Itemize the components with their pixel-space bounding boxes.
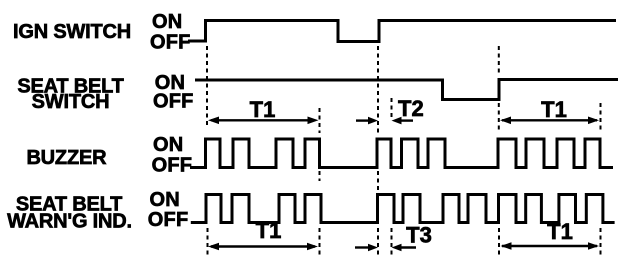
waveform IGN SWITCH bbox=[188, 21, 616, 42]
svg-text:ON: ON bbox=[153, 134, 183, 156]
label BUZZER bbox=[26, 147, 107, 169]
arrow T2 left part bbox=[356, 117, 378, 125]
waveform SEAT BELT WARN'G IND. bbox=[191, 195, 615, 223]
svg-text:ON: ON bbox=[152, 11, 182, 33]
label T1 mid-left bbox=[250, 97, 276, 122]
svg-text:T1: T1 bbox=[250, 97, 276, 122]
waveform BUZZER bbox=[190, 139, 613, 168]
dashed line x=207 lower bbox=[207, 228, 209, 256]
dashed line x=600 lower bbox=[600, 228, 602, 256]
arrow T1 mid-left bbox=[208, 117, 319, 125]
dashed line x=391 mid bbox=[391, 98, 393, 117]
svg-text:SWITCH: SWITCH bbox=[32, 91, 110, 113]
label T1 mid-right bbox=[541, 97, 567, 122]
svg-text:IGN SWITCH: IGN SWITCH bbox=[13, 21, 131, 43]
svg-text:BUZZER: BUZZER bbox=[26, 147, 107, 169]
dashed line x=600 mid bbox=[600, 103, 602, 131]
svg-text:OFF: OFF bbox=[148, 209, 189, 231]
arrow T1 bottom-right bbox=[501, 242, 600, 250]
arrow T1 bottom-left bbox=[208, 243, 318, 251]
dashed line x=499 lower bbox=[498, 228, 500, 256]
dashed line x=207 upper bbox=[206, 46, 208, 127]
label IGN SWITCH bbox=[13, 21, 131, 43]
label ON row1 bbox=[152, 11, 182, 33]
dashed line x=319 mid bbox=[319, 108, 321, 181]
arrow T2 right part bbox=[392, 117, 414, 125]
svg-text:OFF: OFF bbox=[150, 32, 191, 54]
label SEAT BELT WARN'G IND. bbox=[7, 194, 132, 233]
svg-text:OFF: OFF bbox=[153, 91, 194, 113]
svg-text:T1: T1 bbox=[547, 219, 573, 244]
svg-text:ON: ON bbox=[150, 189, 180, 211]
waveform SEAT BELT SWITCH bbox=[195, 80, 618, 100]
svg-text:T2: T2 bbox=[398, 96, 424, 121]
dashed line x=378 upper bbox=[377, 46, 379, 133]
label OFF row1 bbox=[150, 32, 191, 54]
svg-text:WARN'G IND.: WARN'G IND. bbox=[7, 211, 132, 233]
svg-text:OFF: OFF bbox=[152, 155, 193, 177]
svg-text:T1: T1 bbox=[256, 218, 282, 243]
label OFF row4 bbox=[148, 209, 189, 231]
label OFF row3 bbox=[152, 155, 193, 177]
svg-text:T1: T1 bbox=[541, 97, 567, 122]
arrow T1 mid-right bbox=[500, 117, 599, 125]
arrow T3 right part bbox=[392, 244, 417, 252]
label T3 bbox=[406, 223, 432, 248]
label T2 bbox=[398, 96, 424, 121]
arrow T3 left part bbox=[355, 244, 378, 252]
dashed line x=378 lower bbox=[377, 228, 379, 256]
label OFF row2 bbox=[153, 91, 194, 113]
dashed line x=319 lower bbox=[319, 228, 321, 256]
dashed line x=391 lower bbox=[391, 228, 393, 256]
label ON row3 bbox=[153, 134, 183, 156]
label ON row2 bbox=[155, 72, 185, 94]
dashed line x=499 upper bbox=[498, 46, 500, 130]
label T1 bottom-left bbox=[256, 218, 282, 243]
label SEAT BELT SWITCH bbox=[17, 76, 123, 113]
svg-text:T3: T3 bbox=[406, 223, 432, 248]
dashed line x=378 between rows bbox=[377, 171, 379, 191]
label T1 bottom-right bbox=[547, 219, 573, 244]
label ON row4 bbox=[150, 189, 180, 211]
